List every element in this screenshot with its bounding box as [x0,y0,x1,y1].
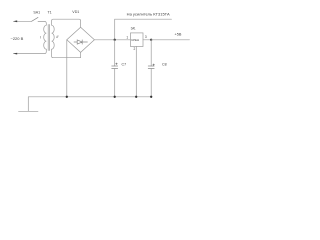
wire switch to transformer [38,21,46,25]
transformer T1 secondary winding [52,25,55,49]
svg-text:VD1: VD1 [72,10,79,14]
svg-text:На усилитель КТ315ТА: На усилитель КТ315ТА [127,13,171,17]
capacitor C7 [112,66,118,69]
wire secondary bottom to bridge [52,49,81,58]
wire input bottom [14,49,47,53]
capacitor C8 [148,66,154,69]
ground [19,97,39,112]
wire bridge minus to ground rail [66,40,68,97]
wire bridge plus to regulator [94,39,130,41]
capacitor C8 plus sign [153,64,155,66]
svg-text:+5В: +5В [175,32,182,36]
transformer T1 core [48,25,49,51]
svg-text:2: 2 [134,47,136,51]
svg-text:II: II [56,35,58,39]
node junction bridge minus rail [66,96,68,98]
svg-text:КРЕН: КРЕН [132,38,140,42]
wire C8 top lead [150,40,152,66]
wire regulator ground pin [135,47,137,97]
bridge rectifier VD1 [67,27,95,52]
wire C7 bottom lead [114,69,116,97]
switch SA1 [32,17,38,21]
wire output plus5V [151,39,189,41]
svg-text:С8: С8 [162,63,167,67]
transformer T1 primary winding [44,25,47,49]
wire annotation takeoff [115,19,172,40]
svg-text:С7: С7 [122,63,127,67]
svg-text:SA1: SA1 [33,10,40,14]
capacitor C7 plus sign [116,63,118,65]
wire secondary top to bridge [52,19,81,27]
svg-text:I: I [40,36,41,40]
bridge diode symbol [74,40,87,44]
node junction C7 rail [114,96,116,98]
node junction regulator ground rail [135,96,137,98]
wire regulator output [143,39,151,41]
node junction output [150,39,152,41]
wire input top [14,20,32,22]
svg-text:~220 В: ~220 В [11,36,24,41]
regulator DA1 box [131,33,144,47]
node junction C8 rail [150,96,152,98]
wire C8 bottom lead [150,69,152,97]
svg-text:DA1: DA1 [131,27,136,31]
svg-text:1: 1 [126,35,128,39]
svg-text:T1: T1 [47,10,51,14]
input arrow top [13,20,17,22]
wire C7 top lead [114,40,116,66]
svg-text:3: 3 [145,35,147,39]
wire ground rail [28,96,151,98]
input arrow bottom [13,53,17,55]
node junction C7 top [114,39,116,41]
